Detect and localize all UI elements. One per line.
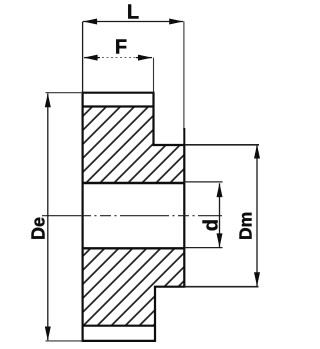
tooth root line bottom [83,325,155,327]
centerline (axis, dash-dot) [42,215,222,217]
hatching lower body section [83,248,185,325]
dimension L: line, arrows, extension [83,19,185,146]
dimension Dm: line, arrows [254,145,260,287]
bore bottom line with extension to d dimension [83,247,185,249]
svg-text:F: F [115,37,127,59]
hatching upper body section [83,107,185,184]
svg-text:De: De [29,217,49,240]
gear body outline [83,93,185,341]
svg-text:L: L [127,2,139,24]
dimension d: line, arrows [217,183,223,248]
hub top edge extension to Dm dimension [184,144,259,146]
tooth root line top [83,105,154,107]
dimension De: line, arrows, extensions [45,93,83,341]
dimension F: line, arrows, extension [84,55,154,93]
hub bottom edge extension to Dm dimension [184,286,258,288]
bore top line with extension to d dimension [83,182,185,184]
svg-text:Dm: Dm [236,212,256,240]
svg-text:d: d [201,219,223,231]
